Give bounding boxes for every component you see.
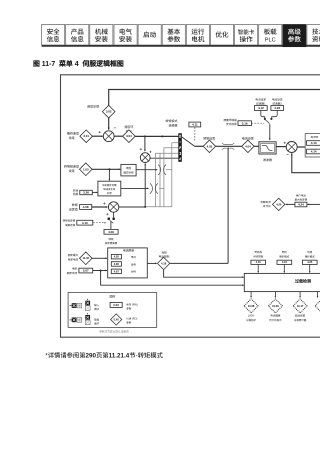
svg-text:参数: 参数 bbox=[167, 33, 181, 43]
svg-text:转矩: 转矩 bbox=[72, 203, 78, 207]
parameter box 4.24 user current maximum scaling bbox=[295, 202, 307, 207]
diamond 4.03 torque demand bbox=[203, 140, 215, 152]
wire active current feedback bbox=[292, 153, 320, 172]
svg-text:3.16: 3.16 bbox=[242, 121, 248, 125]
parameter box 4.15 thermal time constant bbox=[251, 260, 266, 264]
wire dashed 4.11 control bbox=[194, 127, 196, 140]
svg-text:滤波器: 滤波器 bbox=[263, 158, 272, 162]
svg-text:4.11: 4.11 bbox=[192, 123, 198, 127]
svg-text:最大标定值: 最大标定值 bbox=[295, 198, 308, 202]
svg-text:3.01: 3.01 bbox=[83, 134, 89, 138]
svg-text:10.17: 10.17 bbox=[297, 304, 304, 308]
contact filter 2 bbox=[270, 118, 272, 120]
parameter box 4.16 thermal protection mode bbox=[277, 260, 292, 264]
arrowhead feedback into current sum bbox=[291, 153, 293, 155]
svg-text:参数: 参数 bbox=[288, 33, 302, 43]
svg-text:过载检测: 过载检测 bbox=[295, 279, 311, 285]
arrowhead into switch2 bbox=[147, 188, 149, 190]
wire speed feedback from encoder bbox=[109, 90, 320, 130]
arrowhead into indicator diamond bbox=[299, 296, 301, 298]
svg-text:0.XX: 0.XX bbox=[114, 318, 120, 321]
svg-text:4.12: 4.12 bbox=[258, 106, 264, 110]
arrowhead into speed feed-forward box bbox=[119, 168, 121, 170]
wire current limit vertical bbox=[227, 148, 229, 263]
wire riser switch output bbox=[159, 153, 161, 207]
wire 4.04 to filter bbox=[254, 145, 259, 147]
diamond 3.04 speed loop output bbox=[123, 130, 136, 143]
diamond 4.18 overriding current limit bbox=[157, 257, 169, 269]
plus sign mode-4 sum right bbox=[150, 151, 152, 153]
wire 5.07 to limits block bbox=[93, 270, 107, 272]
parameter box 4.10 torque offset select bbox=[77, 220, 93, 225]
svg-text:最终速度: 最终速度 bbox=[67, 131, 79, 135]
arrowhead into summing junction bbox=[108, 128, 110, 130]
summing junction torque reference bbox=[108, 202, 118, 212]
torque offset contact terminals bbox=[108, 218, 115, 224]
parameter box 4.05 motoring current limit bbox=[111, 254, 121, 259]
legend box bbox=[68, 293, 157, 328]
svg-text:图 11-7 菜单 4 伺服逻辑框图: 图 11-7 菜单 4 伺服逻辑框图 bbox=[33, 58, 124, 68]
legend RW parameter box bbox=[110, 302, 122, 307]
svg-text:转矩设定值: 转矩设定值 bbox=[63, 218, 76, 222]
svg-text:标定电流: 标定电流 bbox=[68, 257, 79, 261]
parameter box 4.12 current demand filter 1 bbox=[255, 106, 268, 111]
wire 4.03 to 4.04 through current limit clamp bbox=[216, 145, 242, 147]
parameter box 4.13 current controller Kp bbox=[307, 141, 320, 146]
svg-text:1.03: 1.03 bbox=[83, 167, 89, 171]
svg-text:4.20: 4.20 bbox=[276, 202, 282, 206]
diagram frame bbox=[61, 75, 320, 337]
junction pre-ramp branch bbox=[108, 168, 110, 170]
svg-text:安装: 安装 bbox=[119, 33, 133, 43]
svg-text:4.05: 4.05 bbox=[114, 255, 120, 259]
svg-text:对称: 对称 bbox=[131, 270, 137, 274]
svg-text:4.09: 4.09 bbox=[108, 230, 114, 234]
contact filter 1 bbox=[264, 118, 266, 120]
diamond 10.17 overload indicator bbox=[293, 299, 307, 313]
svg-text:0.XX: 0.XX bbox=[113, 303, 119, 307]
arrowhead into mode-4 summing junction bbox=[144, 150, 146, 152]
svg-text:3.26: 3.26 bbox=[83, 191, 89, 195]
svg-text:4.16: 4.16 bbox=[282, 260, 288, 264]
svg-text:速度环: 速度环 bbox=[124, 125, 133, 129]
arrowhead into 4.24 bbox=[307, 204, 309, 206]
wire switch2 to riser bbox=[159, 187, 164, 189]
diamond 3.02 speed feedback bbox=[102, 105, 115, 118]
wire into overload detection bbox=[283, 264, 285, 272]
diamond 11.32 maximum rated current bbox=[80, 252, 93, 265]
arrowhead clipped indicator bbox=[317, 296, 319, 298]
current demand filter box bbox=[259, 142, 276, 154]
wire dashed 4.10 control bbox=[93, 222, 105, 224]
svg-text:图例: 图例 bbox=[110, 294, 116, 298]
svg-text:4.25: 4.25 bbox=[307, 260, 313, 264]
wire riser selector input 1 bbox=[172, 143, 179, 207]
tab 产品信息 bbox=[66, 25, 89, 46]
arrowhead into 4.18 bbox=[155, 263, 157, 265]
plus sign current sum bbox=[284, 142, 286, 144]
svg-text:选择器: 选择器 bbox=[168, 124, 177, 128]
arrowhead 3.26 into box bbox=[96, 192, 98, 194]
arrowhead into mode-4 sum bottom bbox=[144, 163, 146, 165]
diamond clipped at edge bbox=[315, 299, 320, 313]
switch contact coiler mode bbox=[150, 183, 158, 193]
arrowhead into 4.20 bbox=[285, 204, 287, 206]
svg-text:4.03: 4.03 bbox=[207, 144, 213, 148]
svg-text:偏置选择: 偏置选择 bbox=[65, 223, 76, 227]
svg-text:设定: 设定 bbox=[69, 169, 75, 173]
diamond 4.20 percentage load bbox=[273, 198, 285, 210]
wire torque demand output bbox=[119, 206, 145, 208]
wire filter select down to filter bbox=[269, 124, 271, 140]
parameter box 4.08 torque reference bbox=[80, 205, 92, 210]
wire pre-ramp down to conversion box bbox=[108, 169, 110, 180]
diamond 10.09 overload indicator bbox=[268, 299, 282, 313]
wire down to mode-4 summing junction bbox=[144, 136, 146, 151]
plus sign torque offset input bbox=[106, 213, 108, 215]
svg-text:电动: 电动 bbox=[131, 255, 137, 259]
wire torque demand bottom bus bbox=[145, 206, 172, 208]
junction motor rated current bbox=[100, 270, 102, 272]
wire switch1 to riser bbox=[166, 169, 172, 171]
svg-text:4.10: 4.10 bbox=[82, 221, 88, 225]
arrowhead into overload detection lower bbox=[242, 284, 244, 286]
tab 板载PLC bbox=[259, 25, 282, 46]
parameter box 4.06 regen current limit bbox=[111, 262, 121, 267]
svg-text:参数均为欧洲默认设置值: 参数均为欧洲默认设置值 bbox=[99, 329, 129, 333]
wire conversion box to switch2 bbox=[121, 187, 149, 189]
diamond 10.08 overload indicator bbox=[244, 299, 258, 313]
arrowhead 3.01 into summing junction bbox=[101, 135, 103, 137]
svg-text:4.24: 4.24 bbox=[298, 203, 304, 207]
svg-text:4.18: 4.18 bbox=[161, 261, 167, 265]
wire 1.03 to speed block bbox=[92, 168, 120, 170]
current limit clamp symbol bbox=[222, 143, 234, 150]
svg-text:百分比: 百分比 bbox=[263, 204, 271, 208]
overload detection box bbox=[244, 273, 320, 291]
svg-text:安装: 安装 bbox=[95, 33, 109, 43]
diamond 1.03 pre-ramp reference bbox=[80, 163, 93, 176]
tab 基本参数 bbox=[162, 25, 185, 46]
tab 高级参数 bbox=[283, 25, 306, 47]
speed feed-forward box bbox=[121, 164, 136, 176]
plus sign at speed summing junction bbox=[99, 131, 101, 133]
svg-text:启动: 启动 bbox=[143, 29, 157, 39]
wire limits to 4.18 bbox=[147, 262, 156, 264]
plus sign mode-4 sum bbox=[140, 148, 142, 150]
junction on speed wire bbox=[161, 135, 163, 137]
parameter box 4.11 torque mode selector bbox=[189, 122, 201, 127]
svg-text:PLC: PLC bbox=[265, 35, 276, 43]
torque to current conversion box bbox=[98, 181, 121, 196]
parameter box 3.16 gain change select bbox=[238, 121, 251, 126]
svg-text:端子: 端子 bbox=[94, 322, 100, 326]
svg-text:5.07: 5.07 bbox=[83, 269, 89, 273]
svg-text:端子: 端子 bbox=[94, 307, 100, 311]
svg-text:超前补偿: 超前补偿 bbox=[123, 170, 134, 174]
svg-text:3.04: 3.04 bbox=[126, 134, 132, 138]
svg-text:资料: 资料 bbox=[312, 33, 320, 43]
wire filter to current sum bbox=[276, 146, 286, 148]
wire selector arm bbox=[182, 137, 195, 146]
arrowhead into torque sum bbox=[106, 206, 108, 208]
svg-text:4.07: 4.07 bbox=[114, 269, 120, 273]
current limits group box bbox=[108, 248, 148, 278]
legend input terminal symbol bbox=[70, 299, 91, 311]
wire current sum to controller bbox=[297, 146, 305, 148]
arrowhead into conversion box bbox=[109, 179, 111, 181]
arrowhead into indicator diamond bbox=[275, 296, 277, 298]
wire torque sum down to offset contact bbox=[113, 212, 115, 217]
wire 3.04 to torque mode selector input 0 bbox=[135, 135, 178, 137]
svg-text:补偿: 补偿 bbox=[107, 191, 112, 195]
wire summing junction to 3.04 bbox=[114, 135, 123, 137]
parameter box 4.09 torque offset bbox=[104, 229, 118, 234]
tab 电气安装 bbox=[114, 25, 137, 46]
svg-text:4.23: 4.23 bbox=[274, 106, 280, 110]
svg-text:优化: 优化 bbox=[215, 29, 229, 39]
svg-text:电流限制: 电流限制 bbox=[123, 249, 134, 253]
tab 技术资料 bbox=[307, 25, 320, 46]
wire 4.09 riser bbox=[110, 221, 112, 229]
svg-text:信息: 信息 bbox=[47, 33, 61, 43]
minus sign at speed summing junction bbox=[114, 127, 116, 129]
parameter box 4.25 low speed protection mode bbox=[302, 260, 317, 264]
svg-text:设定: 设定 bbox=[69, 136, 75, 140]
svg-text:4.13: 4.13 bbox=[311, 141, 317, 145]
wire overload box to indicator bbox=[250, 292, 252, 298]
tab 机械安装 bbox=[90, 25, 113, 46]
arrowhead current limit into clamp bbox=[227, 147, 229, 149]
svg-text:4.08: 4.08 bbox=[83, 205, 89, 209]
svg-text:3.02: 3.02 bbox=[106, 110, 112, 114]
diamond 4.04 current demand bbox=[242, 140, 254, 152]
current controller group box bbox=[305, 134, 320, 157]
svg-text:百分比指示: 百分比指示 bbox=[269, 318, 282, 322]
parameter box 4.14 current controller Ki bbox=[307, 149, 320, 154]
svg-text:斜坡前速度: 斜坡前速度 bbox=[64, 165, 79, 169]
diamond 3.01 final speed reference bbox=[80, 130, 93, 143]
wire 11.32 to limits block bbox=[92, 257, 107, 259]
svg-text:10.08: 10.08 bbox=[248, 304, 255, 308]
parameter box 4.23 current demand filter 2 bbox=[271, 106, 284, 111]
minus sign current sum bbox=[287, 154, 289, 156]
summing junction current loop bbox=[286, 142, 297, 153]
arrowhead into overload box bbox=[257, 271, 259, 273]
svg-text:信息: 信息 bbox=[71, 33, 85, 43]
svg-text:4.14: 4.14 bbox=[311, 150, 317, 154]
wire mode-4 sum to selector input 4 bbox=[150, 157, 178, 159]
plus sign torque sum bbox=[103, 202, 105, 204]
wire from current magnitude bbox=[307, 203, 320, 205]
wire 4.12 to contact bbox=[261, 110, 265, 118]
wire overload box to clipped indicator bbox=[317, 292, 319, 298]
wire into overload detection bbox=[257, 264, 259, 272]
tab 优化 bbox=[210, 25, 233, 46]
tab bar underline bbox=[42, 45, 320, 47]
svg-text:额定最大: 额定最大 bbox=[68, 253, 79, 257]
wire 3.26 to conversion box bbox=[92, 191, 97, 193]
wire 4.18 to overload detection bbox=[164, 270, 244, 278]
wire filter select arm bbox=[266, 120, 270, 124]
wire riser selector input 3 bbox=[156, 153, 179, 207]
arrowhead 11.32 into limits bbox=[105, 257, 107, 259]
svg-text:电流环: 电流环 bbox=[311, 135, 319, 139]
wire 4.18 to clamp riser bbox=[170, 262, 228, 264]
wire 4.24 to 4.20 bbox=[286, 203, 295, 205]
parameter box 4.07 symmetrical current limit bbox=[111, 269, 121, 274]
arrowhead into switch1 bbox=[156, 169, 158, 171]
svg-text:保护模式: 保护模式 bbox=[279, 254, 290, 258]
tab 安全信息 bbox=[42, 25, 65, 46]
wire speed ff box to switch1 bbox=[136, 169, 157, 171]
svg-text:保护模式: 保护模式 bbox=[305, 254, 316, 258]
wire motor rated current to overload detection bbox=[101, 271, 244, 286]
svg-text:电机: 电机 bbox=[191, 33, 205, 43]
svg-text:回报: 回报 bbox=[73, 192, 79, 196]
svg-text:发电: 发电 bbox=[131, 262, 137, 266]
wire selector to 4.03 bbox=[195, 145, 204, 147]
tab 智能卡操作 bbox=[235, 25, 258, 46]
wire 3.01 to summing junction bbox=[93, 135, 103, 137]
svg-text:*详情请参阅第290页第11.21.4节-转矩模式: *详情请参阅第290页第11.21.4节-转矩模式 bbox=[45, 351, 163, 360]
svg-text:4.04: 4.04 bbox=[245, 144, 251, 148]
svg-text:额定电流: 额定电流 bbox=[67, 271, 78, 275]
svg-text:参数: 参数 bbox=[126, 320, 132, 324]
arrowhead 4.10 control bbox=[104, 222, 106, 224]
arrowhead into indicator diamond bbox=[250, 296, 252, 298]
wire dashed gain select control bbox=[252, 122, 265, 124]
legend output terminal symbol bbox=[70, 313, 91, 325]
legend RO parameter diamond bbox=[111, 314, 122, 325]
parameter box 3.26 speed feedback bbox=[80, 190, 93, 194]
svg-text:操作: 操作 bbox=[240, 33, 254, 43]
wire torque demand up to mode-4 sum bbox=[144, 164, 146, 207]
tab 运行电机 bbox=[186, 25, 209, 46]
summing junction mode 4 feed-forward bbox=[140, 153, 150, 163]
svg-text:参数: 参数 bbox=[126, 307, 132, 311]
svg-text:设定值: 设定值 bbox=[69, 207, 78, 211]
svg-text:时间常数: 时间常数 bbox=[253, 254, 264, 258]
parameter box 5.07 motor rated current bbox=[79, 268, 93, 273]
svg-text:4.06: 4.06 bbox=[114, 262, 120, 266]
arrowhead into overload box bbox=[284, 271, 286, 273]
wire 4.23 to contact bbox=[272, 110, 278, 118]
junction to feed-forward sum bbox=[144, 135, 146, 137]
arrowhead into overload box bbox=[309, 271, 311, 273]
torque mode selector bar bbox=[178, 133, 182, 162]
svg-text:11.32: 11.32 bbox=[83, 256, 90, 260]
arrowhead into filter box bbox=[269, 139, 271, 141]
arrowhead into overload detection upper bbox=[242, 276, 244, 278]
summing junction speed loop bbox=[103, 131, 114, 142]
wire into overload detection bbox=[309, 264, 311, 272]
tab 启动 bbox=[138, 25, 161, 46]
svg-text:板载: 板载 bbox=[264, 26, 278, 36]
wire overload box to indicator bbox=[299, 292, 301, 298]
svg-text:变化选择: 变化选择 bbox=[226, 122, 237, 126]
wire 4.08 to torque sum bbox=[92, 206, 108, 208]
switch contact speed over-ride bbox=[158, 165, 166, 175]
wire overload box to indicator bbox=[274, 292, 276, 298]
arrowhead 5.07 into limits bbox=[105, 270, 107, 272]
svg-text:转矩模式: 转矩模式 bbox=[165, 119, 177, 123]
svg-text:过载累计器: 过载累计器 bbox=[294, 318, 307, 322]
svg-text:设定值偏置: 设定值偏置 bbox=[105, 241, 118, 245]
svg-text:10.09: 10.09 bbox=[272, 304, 279, 308]
junction torque demand to feed-forward bbox=[144, 206, 146, 208]
svg-text:过载指示: 过载指示 bbox=[246, 318, 257, 322]
svg-text:速度反馈: 速度反馈 bbox=[87, 105, 99, 109]
svg-text:4.15: 4.15 bbox=[256, 260, 262, 264]
wire riser selector input 2 bbox=[164, 148, 178, 207]
